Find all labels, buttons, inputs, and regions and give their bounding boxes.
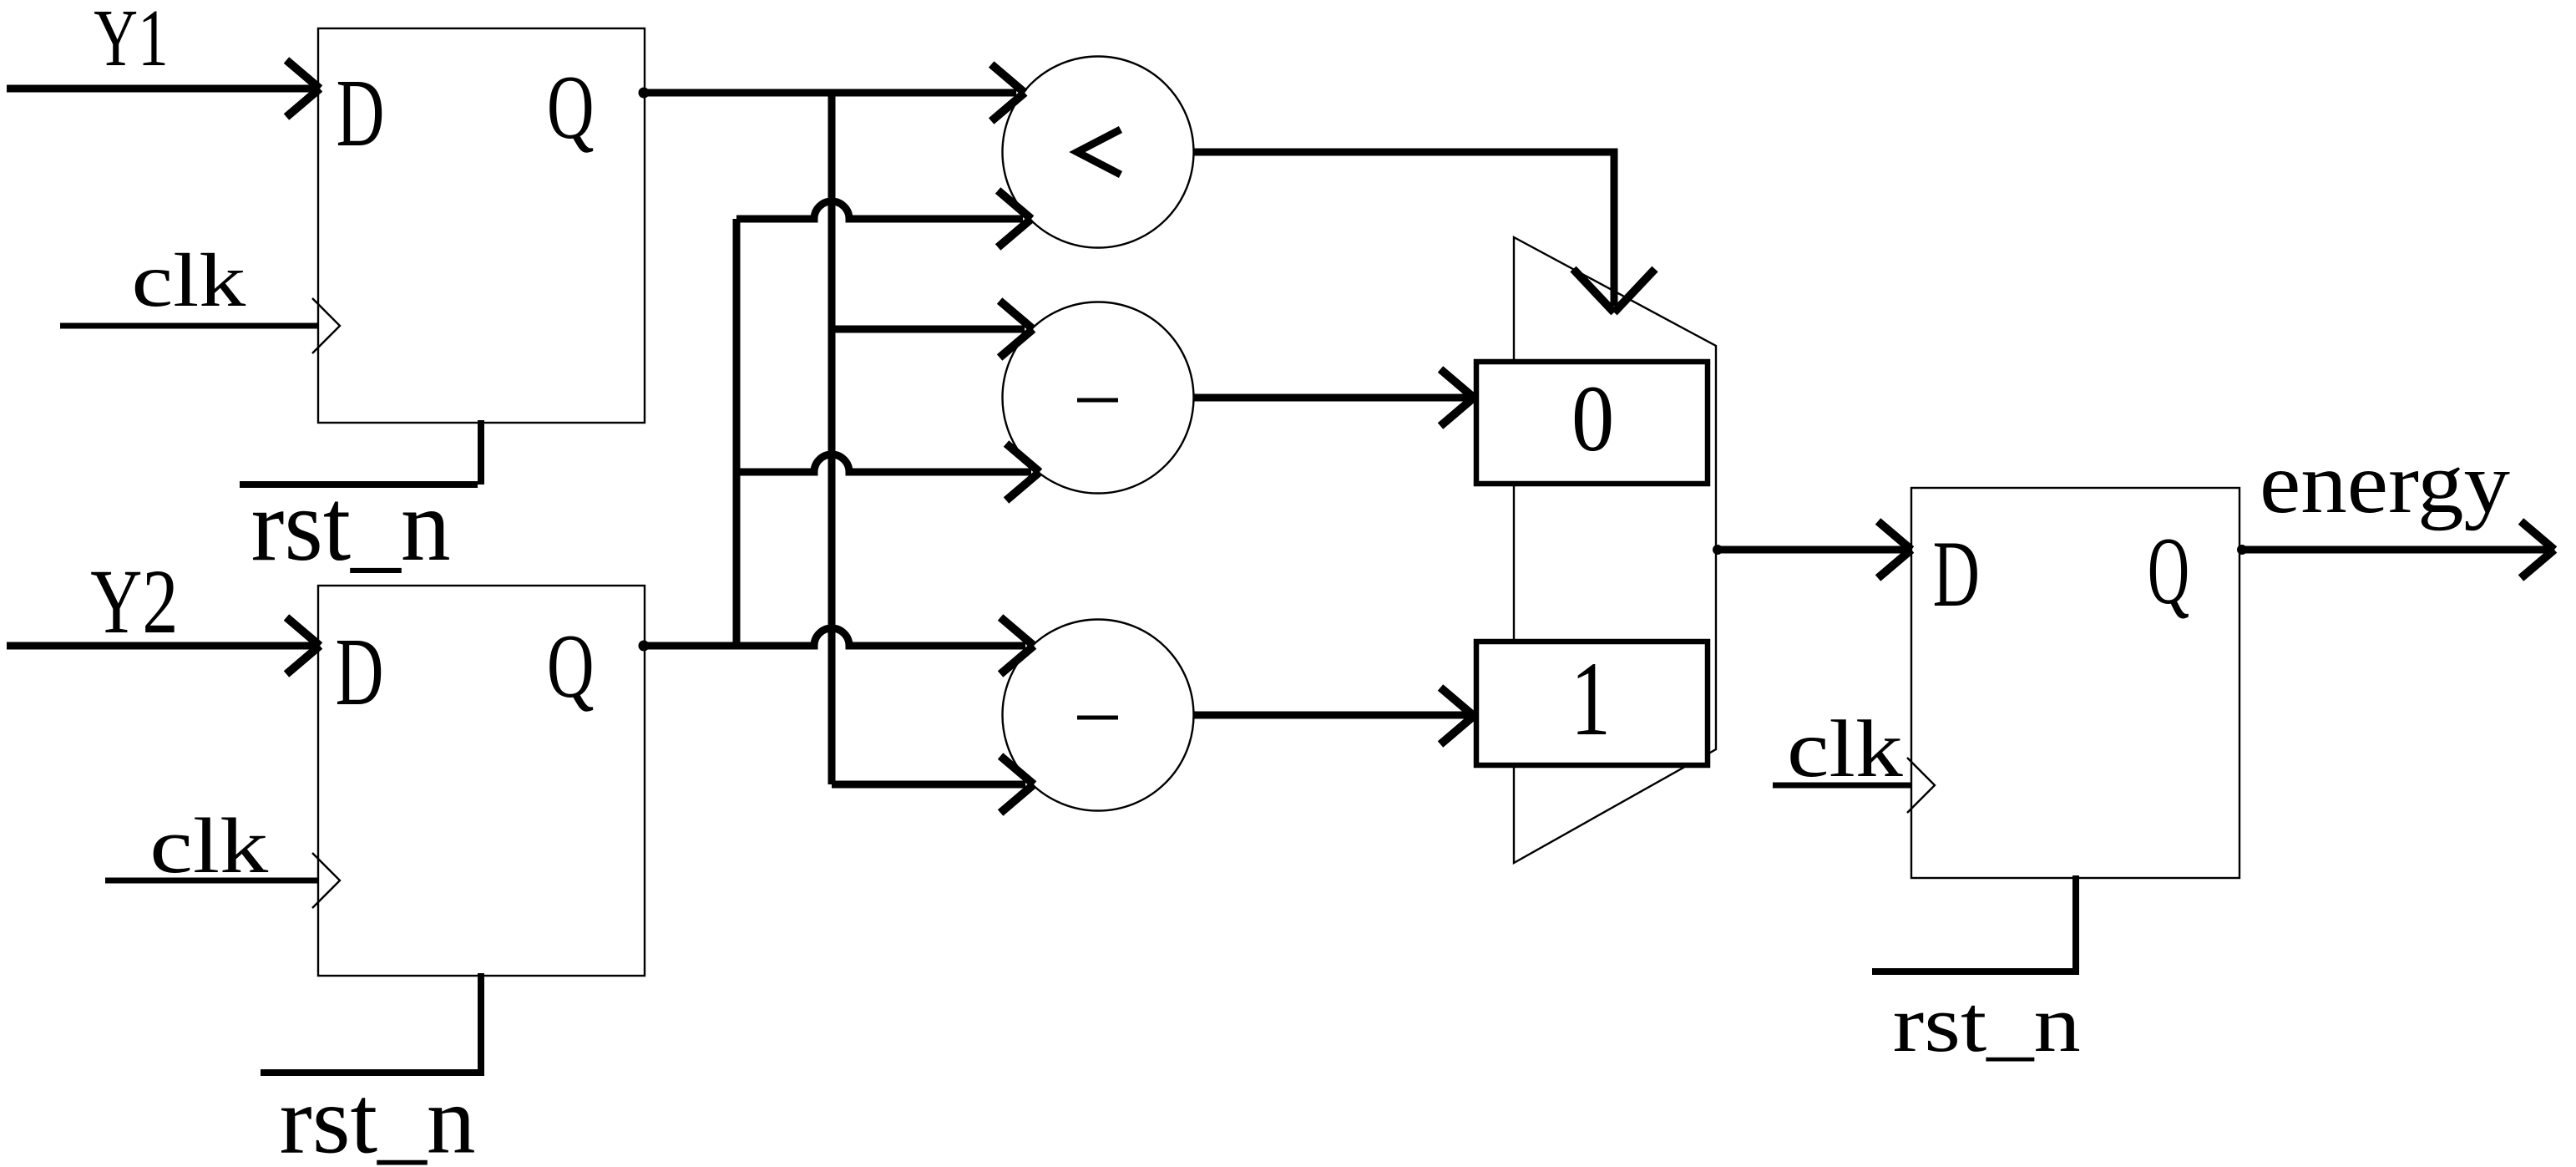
svg-text:Q: Q	[547, 616, 595, 717]
junction nub at U2.Q	[639, 641, 650, 652]
mux M1 data-1 value box	[1476, 642, 1708, 765]
arrowhead into U5 lower input	[1006, 444, 1040, 500]
U6 minus symbol	[1077, 716, 1118, 720]
net rst_n wire into U3	[1872, 875, 2079, 972]
svg-text:Y2: Y2	[90, 551, 178, 652]
D flip-flop U2 (bottom left)	[318, 586, 645, 976]
net clk wire into U2	[105, 878, 318, 884]
net clk wire into U1	[60, 323, 318, 329]
arrowhead into U4 lower input	[998, 190, 1031, 247]
net Q2 vertical bus	[733, 219, 741, 646]
mux M1 data-0 value box	[1476, 362, 1708, 484]
net d0: U5 output to mux input 0	[1194, 394, 1468, 402]
U3 clock chevron	[1907, 758, 1935, 813]
U4 less-than symbol	[1077, 129, 1121, 175]
net Y1 input wire	[7, 85, 314, 93]
svg-text:Q: Q	[2148, 518, 2189, 624]
svg-text:rst_n: rst_n	[251, 468, 451, 582]
U1 clock chevron	[312, 298, 340, 353]
net muxout arrowhead into U3.D	[1878, 521, 1911, 578]
net sel: U4 output to mux select	[1194, 152, 1614, 306]
subtractor U5 (top minus)	[1003, 302, 1194, 494]
svg-text:Y1: Y1	[94, 0, 168, 84]
junction nub at U1.Q	[639, 88, 650, 99]
net Q2: U2.Q output wire with hop over Q1 bus	[644, 628, 1025, 646]
junction nub at U3.Q	[2237, 545, 2247, 555]
svg-text:Q: Q	[547, 57, 595, 158]
D flip-flop U3 (right, output register)	[1911, 488, 2239, 878]
net d1 arrowhead	[1440, 688, 1474, 744]
svg-text:1: 1	[1571, 641, 1611, 758]
net d0 arrowhead	[1440, 369, 1474, 426]
wire Q2 bus to U5 lower input (hop over Q1 bus)	[736, 454, 1031, 472]
net Q1: U1.Q output wire to comparator	[644, 89, 1016, 97]
arrowhead into U5 upper input	[1000, 301, 1033, 358]
wire Q2 bus to U4 lower input (hop over Q1 bus)	[736, 201, 1023, 219]
junction nub at mux output	[1713, 545, 1723, 555]
net energy arrowhead	[2521, 521, 2554, 578]
net muxout: mux output to U3.D	[1716, 546, 1905, 554]
svg-text:clk: clk	[1787, 704, 1903, 794]
comparator U4 (a<b)	[1003, 57, 1194, 248]
net rst_n wire into U1	[240, 420, 481, 485]
net sel arrowhead (down into mux)	[1573, 269, 1655, 312]
svg-text:clk: clk	[132, 238, 246, 322]
mux M1 (2-to-1 multiplexer trapezoid)	[1514, 237, 1716, 863]
svg-text:D: D	[336, 619, 384, 726]
subtractor U6 (bottom minus)	[1003, 620, 1194, 811]
net Q1 vertical bus	[828, 93, 836, 784]
net Y2 input wire	[7, 642, 314, 650]
wire Q1 bus bottom to U6 lower input	[832, 781, 1025, 789]
net Q1 arrowhead into U4 upper input	[991, 64, 1025, 121]
U2 clock chevron	[312, 853, 340, 908]
D flip-flop U1 (top left)	[318, 28, 645, 423]
U5 minus symbol	[1077, 398, 1118, 403]
net clk wire into U3	[1773, 783, 1911, 789]
net Q2 arrowhead into U6 upper input	[1000, 617, 1034, 674]
wire Q1 bus to U5 upper input	[832, 326, 1025, 333]
net energy: U3.Q output wire	[2240, 546, 2548, 554]
svg-text:D: D	[337, 60, 385, 167]
svg-text:D: D	[1933, 522, 1980, 627]
svg-text:energy: energy	[2260, 435, 2510, 531]
net Y2 arrowhead into U2.D	[286, 617, 320, 674]
svg-text:rst_n: rst_n	[1893, 979, 2081, 1068]
arrowhead into U6 lower input	[1000, 756, 1034, 813]
svg-text:0: 0	[1571, 366, 1614, 471]
svg-text:rst_n: rst_n	[280, 1067, 476, 1167]
net rst_n wire into U2	[261, 973, 484, 1073]
net Y1 arrowhead into U1.D	[286, 60, 320, 117]
svg-text:clk: clk	[149, 803, 269, 890]
net d1: U6 output to mux input 1	[1194, 712, 1468, 719]
